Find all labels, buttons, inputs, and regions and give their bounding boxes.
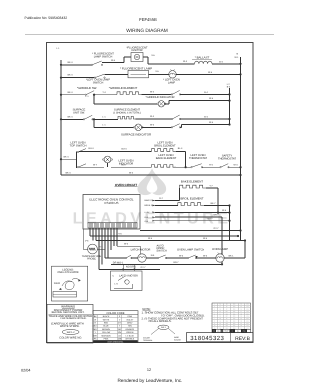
- svg-text:200: 200: [233, 306, 235, 308]
- svg-text:NO DR-1: NO DR-1: [126, 265, 137, 268]
- svg-text:12: 12: [240, 316, 242, 318]
- svg-text:FASTENERS NOTED.: FASTENERS NOTED.: [61, 317, 87, 320]
- svg-text:16: 16: [240, 318, 242, 320]
- svg-text:*GRIDDLE INDICATOR: *GRIDDLE INDICATOR: [146, 96, 175, 99]
- svg-text:12: 12: [147, 368, 151, 372]
- svg-text:SW-1-2: SW-1-2: [67, 331, 76, 334]
- svg-text:BR-7: BR-7: [174, 261, 180, 264]
- svg-text:LAMP: LAMP: [168, 81, 176, 84]
- svg-text:200: 200: [246, 323, 248, 325]
- svg-text:BK-4: BK-4: [68, 91, 74, 94]
- svg-text:02/04: 02/04: [21, 368, 31, 372]
- svg-text:105: 105: [233, 313, 235, 315]
- svg-text:105: 105: [226, 313, 228, 315]
- svg-text:16: 16: [219, 311, 221, 313]
- svg-text:WHT/BLK: WHT/BLK: [125, 337, 135, 340]
- svg-text:18: 18: [219, 318, 221, 320]
- svg-text:ON ALL MODELS.: ON ALL MODELS.: [149, 319, 172, 323]
- svg-text:BK-4: BK-4: [66, 171, 72, 174]
- svg-text:105: 105: [246, 304, 248, 306]
- svg-text:12: 12: [240, 304, 242, 306]
- svg-text:WHITE: WHITE: [103, 318, 110, 321]
- svg-text:W/B: W/B: [118, 337, 122, 340]
- svg-text:BU-4: BU-4: [89, 147, 95, 150]
- svg-text:BROIL ELEMENT: BROIL ELEMENT: [154, 144, 176, 147]
- svg-text:THERMOSTAT: THERMOSTAT: [218, 158, 236, 161]
- svg-text:12: 12: [219, 323, 221, 325]
- svg-text:COLOR WIRE NO.: COLOR WIRE NO.: [59, 337, 82, 340]
- svg-text:BK-4: BK-4: [68, 61, 74, 64]
- svg-text:PINK: PINK: [127, 315, 132, 318]
- svg-text:COLOR CODE: COLOR CODE: [106, 312, 124, 315]
- svg-text:18: 18: [240, 313, 242, 315]
- svg-text:SWITCH: SWITCH: [93, 82, 104, 85]
- svg-text:BK-4: BK-4: [68, 74, 74, 77]
- svg-text:BEFORE SERVICING UNIT.: BEFORE SERVICING UNIT.: [52, 311, 85, 314]
- svg-text:14: 14: [219, 306, 221, 308]
- svg-text:MR: MR: [94, 334, 98, 337]
- svg-text:BK: BK: [226, 311, 228, 313]
- svg-text:VIOLET: VIOLET: [126, 318, 134, 321]
- svg-text:16: 16: [226, 318, 228, 320]
- svg-text:WHITE STRIPE.: WHITE STRIPE.: [60, 325, 80, 328]
- svg-text:GY-7: GY-7: [141, 266, 147, 269]
- svg-text:12: 12: [219, 316, 221, 318]
- svg-text:SWITCH: SWITCH: [157, 249, 167, 252]
- svg-text:105: 105: [233, 311, 235, 313]
- svg-text:105: 105: [226, 325, 228, 327]
- svg-text:LT. BLUE: LT. BLUE: [126, 334, 135, 337]
- svg-text:BROWN: BROWN: [102, 328, 110, 331]
- svg-text:GY-7: GY-7: [214, 227, 220, 230]
- svg-text:BK-4: BK-4: [64, 155, 70, 158]
- svg-text:REV:B: REV:B: [235, 336, 250, 342]
- svg-text:Publication No: 5995403432: Publication No: 5995403432: [25, 16, 68, 20]
- svg-text:LATCH MOTOR: LATCH MOTOR: [131, 248, 151, 251]
- svg-text:*GRIDDLE SW.: *GRIDDLE SW.: [77, 86, 97, 90]
- svg-text:105: 105: [246, 316, 248, 318]
- svg-text:200: 200: [246, 313, 248, 315]
- svg-text:BAKE ELEMENT: BAKE ELEMENT: [156, 157, 177, 160]
- svg-text:* BALLAST: * BALLAST: [195, 56, 210, 60]
- svg-text:18: 18: [240, 325, 242, 327]
- svg-text:WIRING DIAGRAM: WIRING DIAGRAM: [126, 28, 168, 34]
- svg-text:IGNITOR: IGNITOR: [131, 49, 142, 52]
- svg-text:LAMP SWITCH: LAMP SWITCH: [94, 55, 113, 58]
- svg-text:16: 16: [219, 304, 221, 306]
- svg-text:L1 RY: L1 RY: [145, 211, 151, 214]
- svg-text:TAN: TAN: [128, 325, 132, 328]
- svg-text:18: 18: [226, 304, 228, 306]
- svg-text:14: 14: [219, 313, 221, 315]
- svg-text:200: 200: [233, 323, 235, 325]
- svg-text:PROBE: PROBE: [87, 258, 96, 261]
- svg-text:GREEN: GREEN: [126, 331, 134, 334]
- svg-text:LATCH MOTOR: LATCH MOTOR: [119, 274, 138, 277]
- svg-text:ORANGE: ORANGE: [125, 328, 134, 331]
- svg-text:MAROON: MAROON: [102, 334, 112, 337]
- svg-text:ES100 US: ES100 US: [104, 201, 118, 205]
- svg-text:200: 200: [233, 316, 235, 318]
- svg-text:BLUE: BLUE: [103, 325, 109, 328]
- svg-text:* FLUORESCENT LAMP: * FLUORESCENT LAMP: [120, 66, 152, 70]
- svg-text:TOP SWITCH: TOP SWITCH: [70, 145, 87, 148]
- svg-text:SW-R: SW-R: [54, 282, 60, 285]
- svg-text:105: 105: [246, 308, 248, 310]
- svg-text:SURFACE INDICATOR: SURFACE INDICATOR: [121, 133, 151, 137]
- svg-text:14: 14: [219, 325, 221, 327]
- svg-text:W: W: [94, 318, 96, 321]
- svg-text:318045323: 318045323: [190, 335, 224, 342]
- svg-text:GY-7: GY-7: [208, 217, 214, 220]
- svg-text:BK-1: BK-1: [229, 255, 235, 258]
- svg-text:BK: BK: [226, 316, 228, 318]
- svg-text:UNIT SW.: UNIT SW.: [73, 111, 85, 114]
- svg-text:(1 SHOWN, 4 IN TOTAL): (1 SHOWN, 4 IN TOTAL): [113, 111, 141, 114]
- svg-text:16: 16: [240, 306, 242, 308]
- svg-text:OVEN CIRCUIT: OVEN CIRCUIT: [115, 183, 137, 187]
- svg-text:200: 200: [246, 318, 248, 320]
- svg-text:105: 105: [233, 318, 235, 320]
- svg-text:PINK: PINK: [104, 337, 109, 340]
- svg-text:200: 200: [233, 308, 235, 310]
- svg-text:WARNING: WARNING: [61, 304, 76, 308]
- svg-text:16: 16: [240, 308, 242, 310]
- svg-text:200: 200: [233, 320, 235, 322]
- svg-text:BK-4: BK-4: [68, 115, 74, 118]
- svg-text:RED: RED: [104, 322, 109, 325]
- svg-text:BR-7: BR-7: [214, 214, 220, 217]
- svg-text:BAKE RY: BAKE RY: [145, 199, 154, 202]
- svg-text:BU-4: BU-4: [122, 148, 128, 151]
- svg-text:GAUGE: GAUGE: [174, 338, 182, 341]
- svg-text:12: 12: [219, 308, 221, 310]
- svg-text:16: 16: [240, 323, 242, 325]
- svg-text:200: 200: [246, 320, 248, 322]
- svg-text:105: 105: [226, 320, 228, 322]
- svg-text:10: 10: [214, 325, 216, 327]
- svg-text:*GRIDDLE ELEMENT: *GRIDDLE ELEMENT: [109, 86, 138, 90]
- svg-text:105: 105: [246, 325, 248, 327]
- svg-text:TERMINAL: TERMINAL: [143, 339, 153, 342]
- svg-text:BAKE ELEMENT: BAKE ELEMENT: [181, 180, 203, 184]
- svg-text:200: 200: [233, 304, 235, 306]
- svg-text:200: 200: [226, 323, 228, 325]
- svg-text:105: 105: [233, 325, 235, 327]
- svg-text:BK-7: BK-7: [211, 202, 217, 205]
- svg-text:FEF455B: FEF455B: [139, 17, 157, 22]
- svg-text:BL-4: BL-4: [178, 147, 183, 150]
- svg-text:OVEN LAMP SWITCh: OVEN LAMP SWITCh: [177, 249, 205, 252]
- svg-text:BU-7: BU-7: [122, 163, 128, 166]
- svg-text:YELLOW: YELLOW: [102, 331, 110, 334]
- svg-text:SW-1: SW-1: [161, 326, 167, 329]
- svg-text:16: 16: [219, 320, 221, 322]
- svg-text:105: 105: [246, 311, 248, 313]
- svg-text:THERMOSTAT: THERMOSTAT: [189, 157, 207, 160]
- svg-text:OVEN LAMP: OVEN LAMP: [212, 248, 228, 251]
- svg-text:105: 105: [246, 306, 248, 308]
- svg-text:ONE-LATCH WIRE: ONE-LATCH WIRE: [57, 271, 79, 274]
- svg-text:BROIL ELEMENT: BROIL ELEMENT: [180, 197, 203, 201]
- svg-text:18: 18: [240, 320, 242, 322]
- svg-text:14: 14: [240, 311, 242, 313]
- svg-text:Rendered by LeadVenture, Inc.: Rendered by LeadVenture, Inc.: [118, 378, 183, 383]
- svg-text:GN/Y GREEN/YEL: GN/Y GREEN/YEL: [108, 340, 124, 343]
- svg-text:BLACK: BLACK: [103, 315, 110, 318]
- svg-text:GRAY: GRAY: [127, 322, 133, 325]
